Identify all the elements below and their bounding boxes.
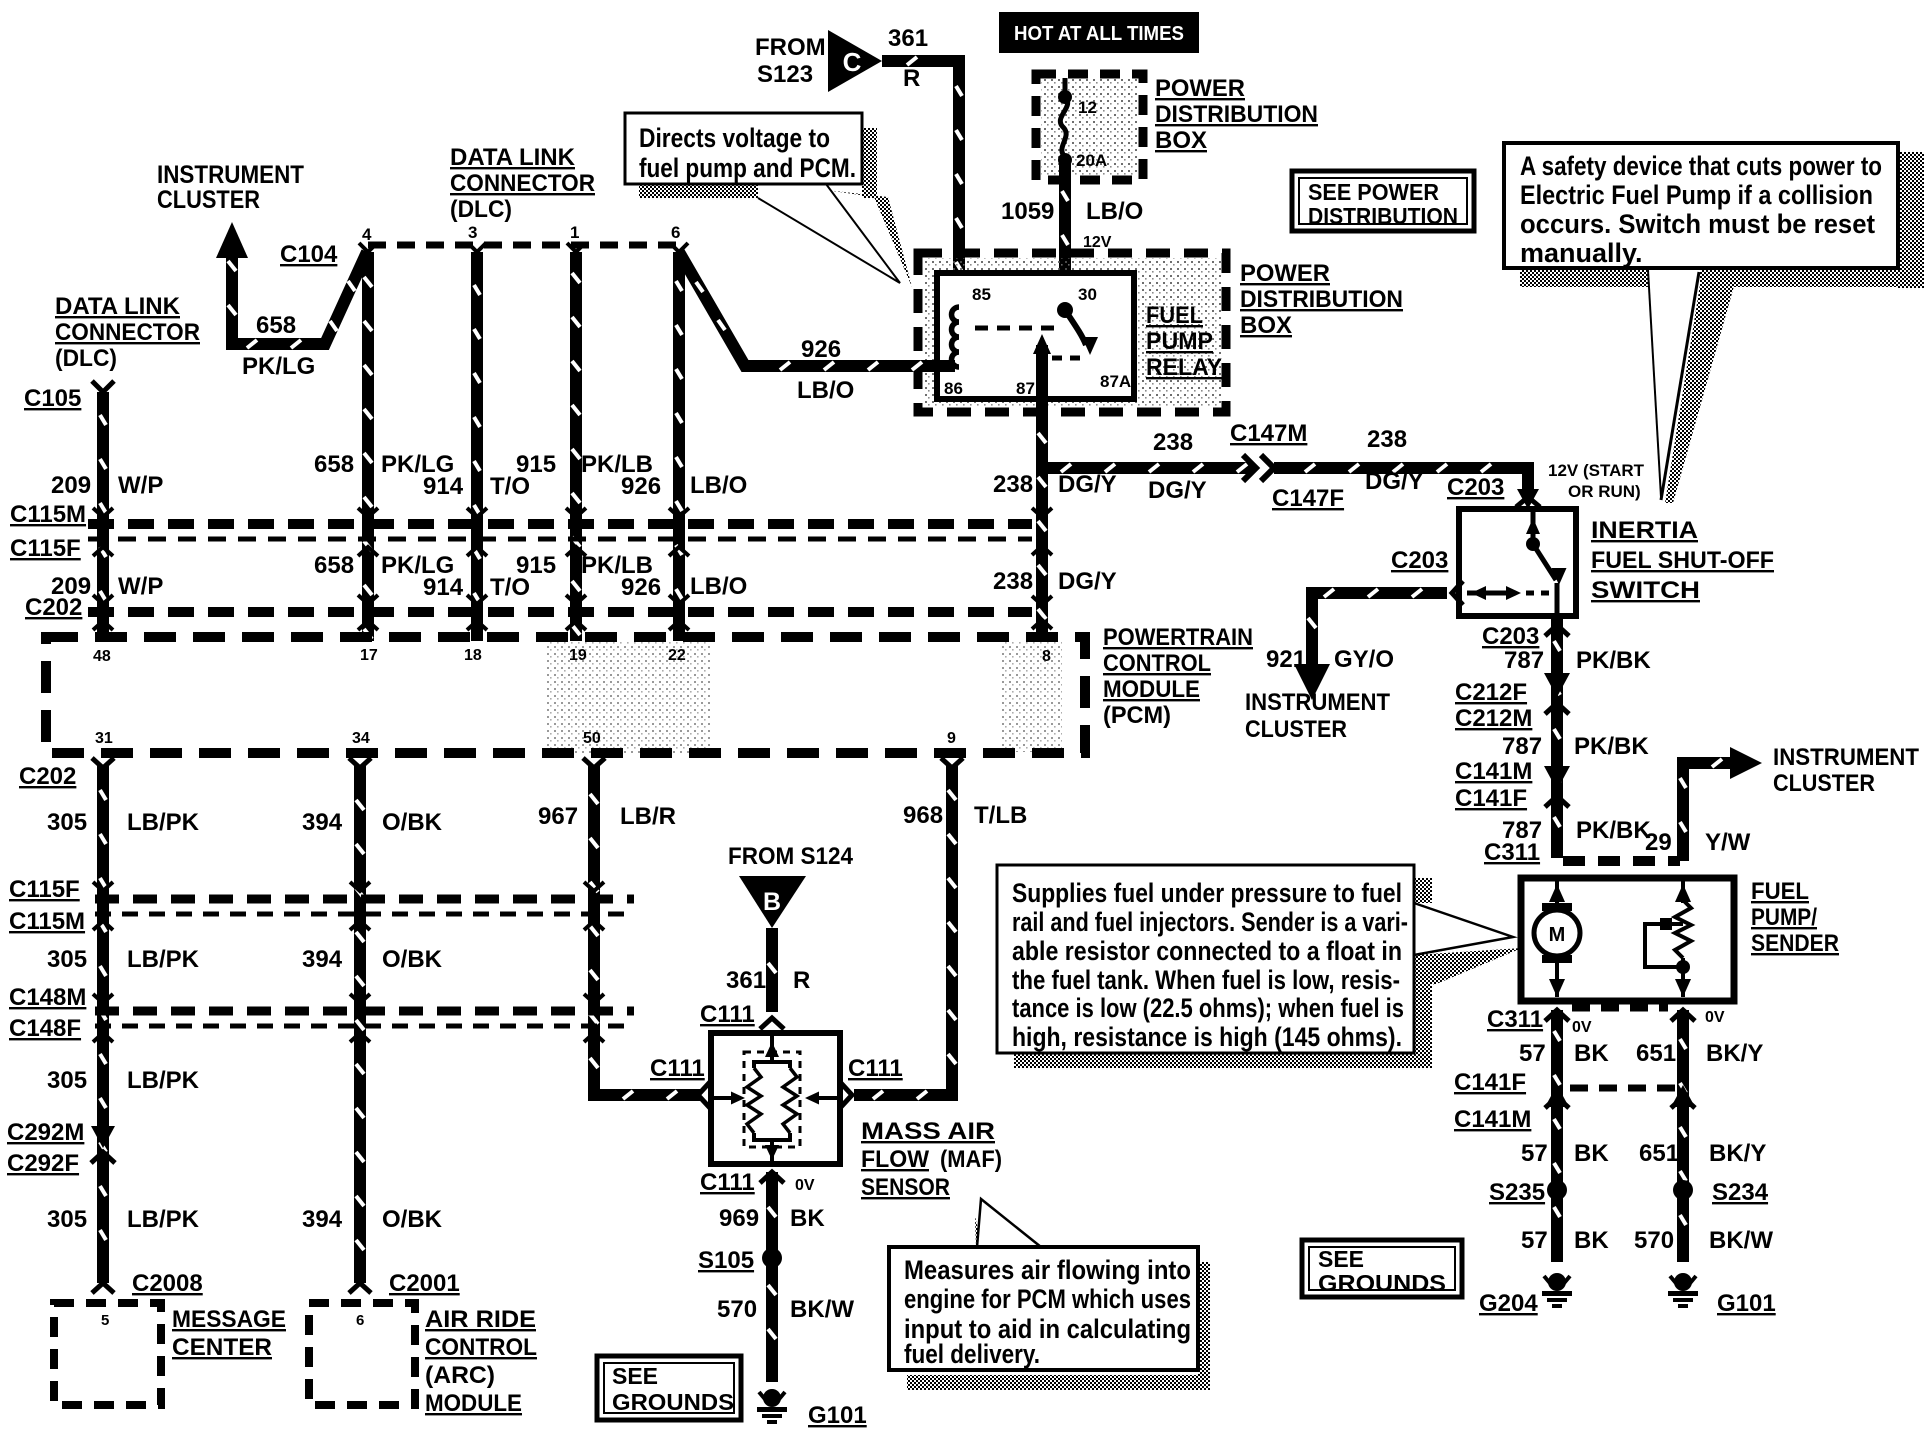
label 238 DG/Y left segment: [1148, 429, 1207, 504]
fuel pump relay box: [937, 273, 1134, 399]
svg-text:34: 34: [352, 730, 370, 747]
wire joints at lower buses: [93, 882, 604, 1042]
svg-text:CONTROL: CONTROL: [1103, 650, 1211, 677]
svg-text:M: M: [1549, 924, 1566, 946]
svg-text:48: 48: [93, 648, 111, 665]
label 570 BK/W: [717, 1296, 854, 1323]
wire 968 T/LB (PCM 9 to MAF): [854, 758, 963, 1099]
wire 305 LB/PK (PCM 31 to C2008): [92, 758, 114, 1293]
connector C212F/C212M arrows: [1544, 673, 1570, 714]
svg-text:occurs. Switch must be reset: occurs. Switch must be reset: [1520, 209, 1875, 239]
svg-text:O/BK: O/BK: [382, 1206, 443, 1233]
svg-text:POWER: POWER: [1240, 260, 1330, 287]
svg-text:SENDER: SENDER: [1751, 930, 1839, 957]
label 57 BK 651 BK/Y row2: [1521, 1140, 1766, 1167]
callout: safety device inertia switch note: [1504, 143, 1924, 503]
svg-text:969: 969: [719, 1205, 759, 1232]
svg-text:BK/W: BK/W: [1709, 1227, 1773, 1254]
label 914 T/O 915 row1: [423, 451, 556, 500]
svg-text:BK: BK: [1574, 1140, 1609, 1167]
svg-text:6: 6: [356, 1312, 364, 1329]
svg-text:C111: C111: [650, 1055, 705, 1082]
label 787 PK/BK (above C141): [1502, 733, 1649, 760]
svg-text:BOX: BOX: [1155, 127, 1207, 154]
svg-text:Y/W: Y/W: [1705, 829, 1751, 856]
svg-text:MODULE: MODULE: [425, 1390, 522, 1417]
svg-text:CONNECTOR: CONNECTOR: [55, 319, 200, 346]
svg-text:0V: 0V: [1705, 1009, 1725, 1026]
svg-text:C: C: [843, 47, 862, 77]
svg-text:658: 658: [314, 451, 354, 478]
svg-text:921: 921: [1266, 646, 1306, 673]
wire 658 pin4 vertical: [362, 252, 374, 641]
pin 4: [359, 225, 377, 252]
svg-text:high, resistance is high (145: high, resistance is high (145 ohms).: [1012, 1022, 1402, 1052]
svg-text:LB/PK: LB/PK: [127, 946, 200, 973]
svg-text:S234: S234: [1712, 1179, 1769, 1206]
label 658 PK/LG (C104 branch): [242, 312, 315, 380]
label 394 O/BK row4: [302, 1206, 443, 1233]
svg-text:238: 238: [1367, 426, 1407, 453]
svg-text:Electric Fuel Pump if a collis: Electric Fuel Pump if a collision: [1520, 180, 1873, 210]
svg-text:INSTRUMENT: INSTRUMENT: [157, 161, 304, 189]
MAF internals resistors: [714, 1036, 837, 1161]
wire 658 PK/LG to instrument cluster: [216, 222, 367, 348]
joint chevrons 238 at C115 bus: [1032, 508, 1052, 555]
svg-text:968: 968: [903, 802, 943, 829]
connector C104: [280, 241, 338, 268]
svg-text:C311: C311: [1484, 839, 1540, 866]
svg-text:651: 651: [1636, 1040, 1676, 1067]
svg-text:C292M: C292M: [7, 1119, 84, 1146]
triangle connector B from S124: [739, 876, 806, 928]
svg-text:Measures air flowing into: Measures air flowing into: [904, 1255, 1191, 1285]
svg-text:BK: BK: [790, 1205, 825, 1232]
svg-text:CLUSTER: CLUSTER: [1773, 770, 1875, 797]
svg-text:LB/O: LB/O: [1086, 198, 1143, 225]
svg-text:926: 926: [621, 473, 661, 500]
svg-text:LB/PK: LB/PK: [127, 809, 200, 836]
svg-text:RELAY: RELAY: [1146, 354, 1222, 381]
svg-text:C212F: C212F: [1455, 679, 1527, 706]
svg-text:fuel pump and PCM.: fuel pump and PCM.: [639, 153, 856, 183]
svg-text:C105: C105: [24, 385, 81, 412]
svg-text:FLOW: FLOW: [861, 1146, 929, 1173]
svg-text:C115F: C115F: [9, 876, 80, 903]
svg-text:W/P: W/P: [118, 573, 163, 600]
svg-text:Directs voltage to: Directs voltage to: [639, 123, 830, 153]
svg-text:305: 305: [47, 1206, 87, 1233]
label 305 LB/PK row2: [47, 946, 200, 973]
power distribution box (fuse) dashed box: [1041, 79, 1138, 175]
svg-text:LB/R: LB/R: [620, 803, 676, 830]
svg-text:(ARC): (ARC): [425, 1362, 495, 1389]
connector C105: [24, 381, 114, 412]
bus line C115M/C115F: [88, 524, 1032, 539]
label MASS AIR FLOW (MAF) SENSOR: [861, 1118, 1002, 1201]
label 394 O/BK row2: [302, 946, 443, 973]
label 209 W/P row1: [51, 472, 163, 499]
svg-text:S123: S123: [757, 61, 813, 88]
svg-text:MODULE: MODULE: [1103, 676, 1200, 703]
label 238 DG/Y row2: [993, 568, 1117, 595]
svg-text:DG/Y: DG/Y: [1148, 477, 1207, 504]
svg-text:DG/Y: DG/Y: [1058, 471, 1117, 498]
pin 3: [468, 223, 486, 252]
label 57 BK 651 BK/Y row1: [1519, 1040, 1763, 1067]
wire 361 R (B to MAF): [766, 928, 778, 1012]
label POWERTRAIN CONTROL MODULE (PCM): [1103, 624, 1253, 729]
relay linkage dashed line: [975, 326, 1056, 331]
wire 914 pin3 vertical: [471, 252, 483, 641]
wire 361 R from S123 to relay coil: [882, 57, 962, 310]
label DATA LINK CONNECTOR (DLC) upper: [450, 144, 595, 223]
svg-text:R: R: [903, 65, 920, 92]
svg-text:S235: S235: [1489, 1179, 1545, 1206]
svg-text:C115F: C115F: [10, 535, 81, 562]
label FUEL PUMP/ SENDER: [1751, 878, 1839, 957]
connector C141 joints on ground wires: [1545, 1085, 1695, 1108]
svg-text:engine for PCM which uses: engine for PCM which uses: [904, 1284, 1191, 1314]
svg-text:fuel delivery.: fuel delivery.: [904, 1339, 1040, 1369]
svg-text:PK/BK: PK/BK: [1574, 733, 1649, 760]
svg-text:926: 926: [621, 574, 661, 601]
svg-text:O/BK: O/BK: [382, 946, 443, 973]
svg-text:57: 57: [1521, 1227, 1548, 1254]
svg-text:57: 57: [1521, 1140, 1548, 1167]
callout: Directs voltage to fuel pump and PCM: [625, 113, 912, 287]
wire joints at C115/C202 buses: [93, 508, 689, 630]
label 926 LB/O (to relay): [797, 336, 854, 404]
svg-text:G101: G101: [808, 1402, 867, 1429]
svg-text:CONNECTOR: CONNECTOR: [450, 170, 595, 197]
svg-text:238: 238: [993, 471, 1033, 498]
air ride control module dashed box: [309, 1303, 415, 1405]
inertia switch internals: [1467, 512, 1567, 613]
svg-text:BK/Y: BK/Y: [1706, 1040, 1763, 1067]
label 914 T/O 915 row2: [423, 552, 556, 601]
svg-text:B: B: [763, 888, 781, 916]
DLC pin bus dashed line C104: [368, 242, 679, 249]
svg-text:C141M: C141M: [1454, 1106, 1531, 1133]
svg-text:C115M: C115M: [10, 501, 86, 528]
svg-text:LB/PK: LB/PK: [127, 1206, 200, 1233]
svg-text:0V: 0V: [1572, 1019, 1592, 1036]
connector chevrons C311 below pump: [1545, 1008, 1695, 1021]
label INSTRUMENT CLUSTER (right): [1773, 744, 1919, 797]
svg-text:PK/BK: PK/BK: [1576, 647, 1651, 674]
svg-text:MASS AIR: MASS AIR: [861, 1118, 995, 1145]
wire 29 Y/W to instrument cluster: [1680, 747, 1762, 861]
svg-text:305: 305: [47, 809, 87, 836]
svg-text:FUEL: FUEL: [1146, 302, 1203, 329]
svg-text:305: 305: [47, 946, 87, 973]
svg-text:(DLC): (DLC): [55, 345, 117, 372]
label 361 R: [888, 25, 928, 92]
PCM pin numbers bottom: [95, 730, 956, 747]
power distribution box (relay) dashed box: [923, 258, 1221, 407]
ground G101 (bottom): [757, 1389, 867, 1429]
svg-text:238: 238: [993, 568, 1033, 595]
svg-text:30: 30: [1078, 285, 1097, 304]
splice S235: [1489, 1179, 1567, 1206]
svg-text:DATA LINK: DATA LINK: [55, 293, 181, 320]
label INSTRUMENT CLUSTER (bottom middle): [1245, 689, 1390, 743]
svg-text:SEE POWER: SEE POWER: [1308, 179, 1439, 205]
svg-text:HOT AT ALL TIMES: HOT AT ALL TIMES: [1014, 23, 1184, 45]
label 787 PK/BK (above C212): [1504, 647, 1651, 674]
svg-text:manually.: manually.: [1520, 238, 1643, 268]
svg-text:1: 1: [570, 223, 579, 242]
label POWER DISTRIBUTION BOX (relay): [1240, 260, 1403, 339]
svg-text:0V: 0V: [795, 1177, 815, 1194]
wire 926 LB/O DLC pin6 to relay coil: [679, 252, 955, 370]
svg-text:C311: C311: [1487, 1006, 1543, 1033]
svg-text:G204: G204: [1479, 1290, 1538, 1317]
svg-text:19: 19: [569, 647, 587, 664]
svg-text:SWITCH: SWITCH: [1591, 577, 1700, 604]
svg-text:BOX: BOX: [1240, 312, 1292, 339]
label C147M / C147F: [1230, 420, 1344, 512]
svg-text:C2001: C2001: [389, 1270, 460, 1297]
svg-text:CLUSTER: CLUSTER: [157, 186, 260, 214]
svg-text:50: 50: [583, 730, 601, 747]
svg-text:394: 394: [302, 809, 343, 836]
svg-text:OR RUN): OR RUN): [1568, 482, 1641, 501]
svg-text:G101: G101: [1717, 1290, 1776, 1317]
label 658 PK/LG row2: [314, 552, 454, 579]
label 305 LB/PK row1: [47, 809, 200, 836]
svg-text:O/BK: O/BK: [382, 809, 443, 836]
svg-text:(DLC): (DLC): [450, 196, 512, 223]
label 921 GY/O: [1266, 646, 1394, 673]
label AIR RIDE CONTROL (ARC) MODULE: [425, 1306, 537, 1417]
svg-text:C147F: C147F: [1272, 485, 1344, 512]
svg-text:W/P: W/P: [118, 472, 163, 499]
svg-text:C203: C203: [1482, 623, 1539, 650]
svg-text:T/LB: T/LB: [974, 802, 1027, 829]
wire 921 GY/O to instrument cluster: [1294, 581, 1463, 700]
svg-text:SEE: SEE: [612, 1363, 658, 1389]
PCM pin numbers top: [93, 647, 1051, 665]
label 787 PK/BK C311 29 Y/W: [1502, 817, 1751, 856]
svg-text:31: 31: [95, 730, 113, 747]
svg-text:C148M: C148M: [9, 984, 86, 1011]
fuel sender variable resistor and float: [1645, 881, 1691, 997]
svg-text:305: 305: [47, 1067, 87, 1094]
svg-text:20A: 20A: [1076, 151, 1107, 170]
wire 1059 LB/O fuse to relay pin30: [1059, 162, 1071, 312]
label 967 LB/R: [538, 803, 676, 830]
inertia fuel shut-off switch box: [1459, 509, 1576, 616]
svg-text:FROM: FROM: [755, 34, 826, 61]
connector C141M/C141F arrows: [1544, 766, 1570, 807]
relay switch blade pin30 to 87A: [1057, 302, 1098, 355]
label 305 LB/PK row4: [47, 1206, 200, 1233]
label POWER DISTRIBUTION BOX (fuse): [1155, 75, 1318, 154]
svg-text:915: 915: [516, 451, 556, 478]
label DATA LINK CONNECTOR (DLC) left: [55, 293, 200, 372]
svg-text:570: 570: [717, 1296, 757, 1323]
bus line C115F/C115M lower: [95, 899, 634, 914]
label C111 bottom and 0V: [700, 1169, 815, 1196]
svg-text:238: 238: [1153, 429, 1193, 456]
svg-text:86: 86: [944, 379, 963, 398]
svg-text:BK: BK: [1574, 1040, 1609, 1067]
svg-text:12V (START: 12V (START: [1548, 461, 1645, 480]
callout: supplies fuel under pressure note: [997, 865, 1522, 1068]
svg-text:570: 570: [1634, 1227, 1674, 1254]
svg-text:3: 3: [468, 223, 477, 242]
svg-text:INERTIA: INERTIA: [1591, 517, 1698, 544]
svg-text:C212M: C212M: [1455, 705, 1532, 732]
svg-text:LB/PK: LB/PK: [127, 1067, 200, 1094]
label C141F C141M (lower): [1454, 1069, 1531, 1133]
svg-text:INSTRUMENT: INSTRUMENT: [1773, 744, 1919, 771]
svg-text:C141M: C141M: [1455, 758, 1532, 785]
ground G101 (right): [1668, 1273, 1776, 1317]
svg-text:SEE: SEE: [1318, 1246, 1364, 1272]
fuel pump/sender box: [1521, 878, 1734, 1001]
label PK/LB 926 row1: [581, 451, 661, 500]
svg-text:LB/O: LB/O: [690, 573, 747, 600]
svg-text:S105: S105: [698, 1247, 754, 1274]
label 238 DG/Y right segment: [1365, 426, 1424, 495]
svg-text:C2008: C2008: [132, 1270, 203, 1297]
svg-text:4: 4: [362, 225, 372, 244]
svg-text:18: 18: [464, 647, 482, 664]
bus line C202: [88, 607, 1032, 617]
svg-text:22: 22: [668, 647, 686, 664]
svg-text:394: 394: [302, 946, 343, 973]
svg-text:17: 17: [360, 647, 378, 664]
svg-text:1059: 1059: [1001, 198, 1054, 225]
wire 238 DG/Y horizontal to inertia switch: [1274, 468, 1528, 498]
svg-text:(MAF): (MAF): [940, 1146, 1002, 1173]
svg-text:BK: BK: [1574, 1227, 1609, 1254]
label 969 BK: [719, 1205, 825, 1232]
ground G204: [1479, 1273, 1572, 1317]
svg-text:87A: 87A: [1100, 372, 1131, 391]
svg-text:787: 787: [1502, 733, 1542, 760]
svg-text:5: 5: [101, 1312, 109, 1329]
connector chevron C203 top: [1516, 489, 1540, 509]
label 238 DG/Y row1: [993, 471, 1117, 498]
bus line C148M/C148F: [95, 1011, 634, 1026]
wire 209 W/P vertical (C105 to PCM pin 48): [97, 392, 109, 641]
svg-text:651: 651: [1639, 1140, 1679, 1167]
message center dashed box: [54, 1303, 161, 1405]
svg-text:INSTRUMENT: INSTRUMENT: [1245, 689, 1390, 716]
wire 57 BK pump to G204: [1551, 1010, 1563, 1262]
svg-text:FROM S124: FROM S124: [728, 843, 854, 870]
svg-text:DISTRIBUTION: DISTRIBUTION: [1240, 286, 1403, 313]
svg-text:FUEL SHUT-OFF: FUEL SHUT-OFF: [1591, 547, 1774, 574]
svg-text:BK/W: BK/W: [790, 1296, 854, 1323]
svg-text:29: 29: [1645, 829, 1672, 856]
SEE GROUNDS box (left): [597, 1356, 741, 1420]
svg-text:MESSAGE: MESSAGE: [172, 1306, 286, 1333]
svg-text:tance is low (22.5 ohms); when: tance is low (22.5 ohms); when fuel is: [1012, 993, 1404, 1023]
label 57 BK 570 BK/W row3: [1521, 1227, 1773, 1254]
label 658 PK/LG row1: [314, 451, 454, 478]
svg-text:GROUNDS: GROUNDS: [612, 1389, 734, 1415]
svg-text:BK/Y: BK/Y: [1709, 1140, 1766, 1167]
label C212F C212M: [1455, 679, 1532, 732]
fuse 12 20A: [1058, 78, 1107, 170]
svg-text:8: 8: [1042, 648, 1051, 665]
svg-text:C104: C104: [280, 241, 338, 268]
svg-text:LB/O: LB/O: [797, 377, 854, 404]
svg-text:CONTROL: CONTROL: [425, 1334, 537, 1361]
svg-text:A safety device that cuts powe: A safety device that cuts power to: [1520, 151, 1882, 181]
connector chevron C111 left: [698, 1082, 710, 1108]
callout: measures air flowing note: [889, 1199, 1210, 1390]
svg-text:C141F: C141F: [1454, 1069, 1526, 1096]
svg-text:DISTRIBUTION: DISTRIBUTION: [1308, 203, 1458, 229]
svg-text:DATA LINK: DATA LINK: [450, 144, 576, 171]
svg-text:C115M: C115M: [9, 908, 85, 935]
svg-text:12V: 12V: [1083, 234, 1112, 251]
svg-text:926: 926: [801, 336, 841, 363]
svg-text:915: 915: [516, 552, 556, 579]
svg-text:DISTRIBUTION: DISTRIBUTION: [1155, 101, 1318, 128]
connector chevron C111 bottom: [760, 1172, 784, 1183]
svg-text:C203: C203: [1391, 547, 1448, 574]
label 12V START OR RUN: [1548, 461, 1645, 501]
powertrain control module PCM dashed box: [545, 642, 710, 754]
triangle connector C from S123: [828, 30, 882, 92]
svg-text:914: 914: [423, 473, 464, 500]
label 394 O/BK row1: [302, 809, 443, 836]
svg-text:6: 6: [671, 223, 680, 242]
svg-text:C203: C203: [1447, 474, 1504, 501]
svg-text:DG/Y: DG/Y: [1058, 568, 1117, 595]
svg-text:CENTER: CENTER: [172, 1334, 272, 1361]
wire 967 LB/R (PCM 50 to MAF): [583, 758, 700, 1099]
dashed link C311 to Y/W wire: [1563, 856, 1680, 866]
wire 238 DG/Y horizontal to C147: [1038, 462, 1252, 474]
label 968 T/LB: [903, 802, 1027, 829]
svg-text:PK/LG: PK/LG: [242, 353, 315, 380]
svg-text:PK/BK: PK/BK: [1576, 817, 1651, 844]
svg-text:914: 914: [423, 574, 464, 601]
svg-text:361: 361: [726, 967, 766, 994]
wire 651 BK/Y sender to G101: [1677, 1010, 1689, 1262]
connector chevron C111 right: [840, 1082, 852, 1108]
svg-text:rail and fuel injectors. Sende: rail and fuel injectors. Sender is a var…: [1012, 907, 1408, 937]
svg-text:C148F: C148F: [9, 1015, 81, 1042]
SEE GROUNDS box (right): [1302, 1240, 1462, 1297]
svg-text:POWERTRAIN: POWERTRAIN: [1103, 624, 1253, 651]
svg-text:57: 57: [1519, 1040, 1546, 1067]
svg-text:C292F: C292F: [7, 1150, 79, 1177]
relay pin labels 85 30 86 87 87A: [944, 285, 1131, 398]
label INSTRUMENT CLUSTER (top left): [157, 161, 304, 214]
SEE POWER DISTRIBUTION box: [1292, 171, 1474, 231]
wire 969 BK MAF to S105: [766, 1172, 778, 1250]
wire 787 PK/BK switch to C311: [1545, 616, 1569, 858]
svg-text:C141F: C141F: [1455, 785, 1527, 812]
HOT AT ALL TIMES banner: [999, 12, 1199, 53]
svg-text:POWER: POWER: [1155, 75, 1245, 102]
svg-text:787: 787: [1504, 647, 1544, 674]
label FROM S123: [755, 34, 826, 88]
splice S234: [1673, 1179, 1769, 1206]
svg-text:658: 658: [256, 312, 296, 339]
svg-text:DG/Y: DG/Y: [1365, 468, 1424, 495]
svg-text:FUEL: FUEL: [1751, 878, 1809, 905]
